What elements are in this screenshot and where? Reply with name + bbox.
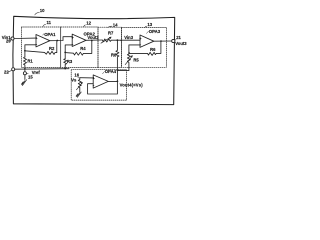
wire OPA4 feedback: [88, 81, 118, 94]
terminal 21 Vout3: [172, 39, 175, 42]
wire OPA3 inverting input: [129, 45, 140, 53]
node R3 bottom: [64, 68, 66, 70]
wire Vin1 to OPA1 +: [14, 37, 36, 39]
wire OPA3 out: [154, 40, 172, 42]
svg-text:10: 10: [40, 8, 45, 13]
svg-text:Vref: Vref: [32, 70, 41, 75]
label Vs: [71, 78, 77, 83]
svg-text:20: 20: [6, 38, 11, 43]
svg-text:R4: R4: [80, 46, 86, 51]
svg-text:14: 14: [113, 23, 118, 28]
resistor R2: [25, 41, 57, 55]
svg-text:R5: R5: [133, 57, 139, 62]
node stage3 out: [160, 40, 162, 42]
op-amp OPA3: [140, 35, 154, 47]
svg-text:R8: R8: [111, 52, 117, 57]
label 11: [47, 20, 52, 25]
label Vin3: [124, 35, 133, 40]
wire Vs rail: [117, 69, 128, 71]
svg-text:OPA3: OPA3: [149, 29, 161, 34]
resistor R8: [116, 40, 119, 81]
terminal 22: [12, 68, 15, 71]
svg-text:+: +: [72, 35, 75, 40]
node stage2 out: [91, 40, 93, 42]
svg-text:21: 21: [176, 35, 181, 40]
resistor R6: [129, 41, 161, 55]
svg-text:11: 11: [47, 20, 52, 25]
node rail T: [117, 70, 119, 72]
label 16: [74, 73, 79, 78]
svg-text:+: +: [139, 36, 142, 41]
resistor R1: [24, 57, 27, 69]
ground (element 16): [76, 92, 81, 97]
node stage1 out: [56, 40, 58, 42]
svg-text:Vs: Vs: [71, 78, 77, 83]
svg-text:13: 13: [147, 22, 152, 27]
node OPA4 out: [117, 80, 119, 82]
svg-text:12: 12: [86, 21, 91, 26]
op-amp OPA1: [36, 35, 50, 47]
leader OPA3 label: [147, 31, 149, 33]
resistor R3: [64, 59, 67, 69]
label 14: [113, 23, 118, 28]
node R8 tap: [117, 39, 119, 41]
resistor R5 (trim arrow): [127, 53, 130, 70]
wire OPA1 out to OPA2 +: [50, 37, 72, 41]
node R1 bottom: [24, 68, 26, 70]
rail from terminal 22: [15, 68, 69, 71]
svg-text:Vout2: Vout2: [87, 35, 99, 40]
svg-text:OPA4: OPA4: [105, 69, 117, 74]
svg-text:Vout4(=Vs): Vout4(=Vs): [120, 82, 144, 87]
label 12: [86, 21, 91, 26]
wire OPA2 inverting input: [65, 45, 72, 59]
outer chip box 10: [13, 16, 175, 104]
label Vout4: [120, 82, 144, 87]
label 13: [147, 22, 152, 27]
dashed block 12: [61, 27, 98, 67]
svg-text:R6: R6: [150, 47, 156, 52]
label 10: [40, 8, 45, 13]
sensor element 16 (variable, to ground): [78, 78, 81, 92]
terminal 15 Vref: [23, 72, 26, 75]
svg-text:Vout3: Vout3: [175, 41, 187, 46]
svg-text:15: 15: [28, 74, 33, 79]
op-amp OPA2: [72, 34, 86, 46]
wire OPA4 out: [108, 80, 117, 82]
svg-text:+: +: [93, 76, 96, 81]
dashed block 13: [122, 27, 167, 67]
dashed block 11: [21, 27, 60, 67]
resistor R7 (trim arrow): [102, 39, 140, 42]
wire OPA2 out: [86, 39, 102, 41]
svg-text:R3: R3: [67, 59, 73, 64]
wire element to OPA4 +: [80, 77, 93, 79]
dashed block bottom (OPA4/Vs): [71, 70, 126, 100]
terminal 20 Vin1: [11, 37, 14, 40]
svg-text:Vin3: Vin3: [124, 35, 133, 40]
wire Vref drop: [24, 69, 26, 72]
wire OPA1 inverting input: [25, 45, 36, 57]
resistor R4: [65, 41, 92, 56]
svg-text:R7: R7: [108, 30, 114, 35]
svg-text:OPA1: OPA1: [44, 32, 56, 37]
dashed block 14: [98, 27, 122, 67]
svg-text:R1: R1: [27, 58, 33, 63]
node R4 tap: [64, 52, 66, 54]
svg-text:R2: R2: [49, 46, 55, 51]
node divider crossing: [121, 40, 122, 41]
ground (Vref): [24, 75, 26, 80]
svg-text:+: +: [35, 35, 38, 40]
node R2 tap: [24, 50, 26, 52]
op-amp OPA4: [93, 75, 108, 88]
node fb3: [128, 52, 130, 54]
